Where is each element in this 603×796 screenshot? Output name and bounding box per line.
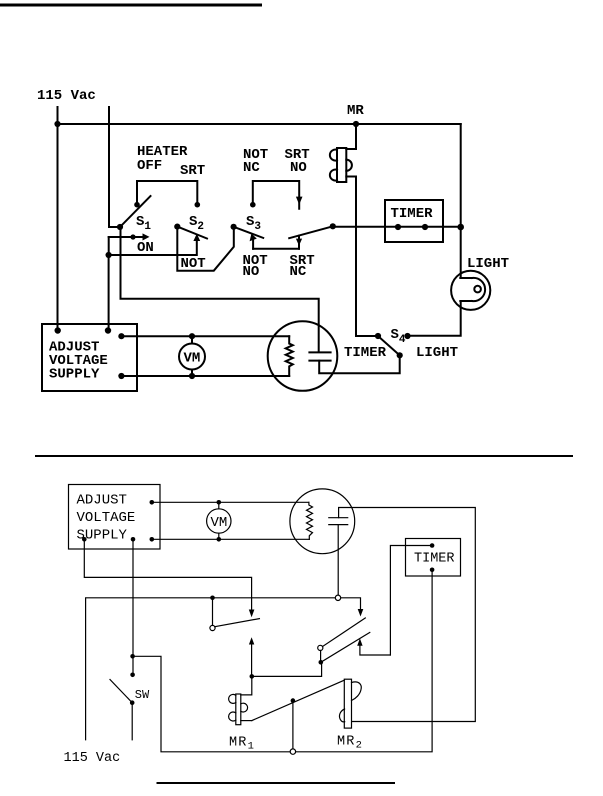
node box terminal bottom-right: [118, 373, 124, 379]
tube envelope lower: [290, 489, 355, 554]
wire box to tube bottom: [121, 375, 289, 377]
svg-text:SRT: SRT: [180, 163, 205, 179]
capacitor plates lower: [329, 518, 348, 525]
svg-text:TIMER: TIMER: [414, 552, 455, 567]
node timer terminal 1: [395, 224, 401, 230]
label ADJUST VOLTAGE SUPPLY lower: [77, 493, 136, 544]
wire on contact feed: [109, 237, 197, 255]
wire box to tube top lower: [152, 501, 309, 503]
node rail open junction: [335, 595, 340, 600]
wire box left lead to contact arm: [84, 539, 251, 613]
relay contact MR2: [318, 618, 370, 665]
node junction: [106, 252, 112, 258]
wire box to tube top: [121, 335, 289, 337]
svg-text:VM: VM: [184, 351, 201, 367]
contact ON: [109, 233, 150, 240]
wire top bus: [58, 123, 461, 125]
switch S1: [117, 196, 151, 230]
contact arrow SRT NO: [296, 197, 303, 205]
node rail junction: [457, 224, 464, 231]
wire lamp top: [460, 124, 462, 278]
wire heater-off bracket: [137, 181, 197, 204]
node terminal bottom-left: [82, 537, 87, 542]
relay blade SRT NC: [289, 223, 336, 238]
svg-text:115 Vac: 115 Vac: [64, 751, 121, 766]
switch SW: [110, 539, 135, 740]
wire junction to bus: [292, 701, 294, 749]
svg-text:NO: NO: [243, 264, 260, 280]
node srt contact S2: [195, 202, 201, 208]
wire left supply lead: [57, 107, 59, 331]
svg-text:MR: MR: [347, 103, 364, 119]
resistor inside tube: [286, 336, 293, 376]
svg-text:NO: NO: [290, 160, 307, 176]
node bus open junction: [290, 749, 295, 754]
switch S4: [375, 333, 411, 359]
box TIMER lower: [406, 539, 461, 577]
wire lower left lead to box: [108, 255, 110, 331]
wire not-no to srt-nc: [253, 248, 299, 250]
contact arrow down left: [249, 610, 255, 618]
node heater off contact: [134, 202, 140, 208]
switch S2: [174, 224, 207, 239]
box TIMER: [385, 200, 443, 242]
node timer terminal 2: [422, 224, 428, 230]
label SRT NO: [285, 147, 310, 176]
node timer top terminal: [430, 543, 435, 548]
contact arrow down right: [358, 609, 364, 617]
node terminal bottom-mid: [131, 537, 136, 542]
svg-text:NOT: NOT: [181, 256, 206, 272]
node diagonal junction: [291, 698, 296, 703]
node MR junction: [353, 121, 359, 127]
svg-text:VOLTAGE: VOLTAGE: [77, 510, 136, 526]
capacitor plates: [309, 352, 330, 360]
wire rail to timer: [333, 226, 461, 228]
svg-text:LIGHT: LIGHT: [416, 345, 458, 361]
resistor inside tube lower: [307, 502, 313, 539]
contact arrow NOT (at S2): [193, 234, 200, 241]
svg-text:NC: NC: [290, 264, 307, 280]
lamp LIGHT: [451, 271, 490, 310]
wire timer top lead: [390, 546, 432, 656]
contact arrow NOT NO: [250, 234, 257, 249]
wire MR1 bottom diagonal to MR2 top: [252, 680, 344, 720]
svg-text:ADJUST: ADJUST: [77, 493, 127, 509]
wire S1 to tube capacitor grid: [121, 227, 319, 352]
contact arrow up left: [249, 637, 254, 676]
svg-text:NC: NC: [243, 160, 260, 176]
svg-text:SUPPLY: SUPPLY: [49, 367, 100, 383]
node not nc contact: [250, 202, 256, 208]
label NOT NC: [243, 147, 268, 176]
label SRT NC: [290, 253, 315, 280]
node box terminal mid: [105, 327, 111, 333]
wire lamp bottom to S4: [408, 301, 461, 336]
wire link to MR2 contact: [252, 662, 322, 676]
svg-text:115 Vac: 115 Vac: [37, 88, 96, 104]
switch S3: [231, 224, 264, 238]
node supply junction: [54, 121, 60, 127]
node box terminal left: [55, 327, 61, 333]
meter VM: [179, 333, 205, 379]
node terminal bottom-right: [150, 537, 155, 542]
label ADJUST VOLTAGE SUPPLY: [49, 340, 108, 383]
wire 115vac lead and rail: [86, 598, 361, 740]
wire capacitor top to MR2 coil: [339, 508, 476, 722]
wire S4 to capacitor: [319, 355, 400, 373]
node timer bottom terminal: [430, 568, 435, 573]
relay coil MR1: [229, 694, 252, 725]
svg-text:OFF: OFF: [137, 158, 162, 174]
contact arrow SRT NC: [296, 236, 302, 249]
box ADJUST VOLTAGE SUPPLY lower: [69, 485, 161, 550]
wire box to tube bottom lower: [152, 538, 309, 540]
contact arrow up right: [357, 638, 390, 655]
wire S2 to S3 via NOT: [177, 227, 234, 271]
relay contact MR1: [210, 596, 260, 631]
wire not-nc bracket and srt-no arm: [253, 181, 299, 209]
tube envelope: [268, 321, 338, 391]
relay coil MR2: [339, 679, 361, 728]
node box terminal top-right: [118, 333, 124, 339]
node MR1 top junction: [250, 674, 255, 679]
svg-text:VM: VM: [211, 515, 228, 531]
svg-text:SW: SW: [135, 688, 150, 702]
svg-text:LIGHT: LIGHT: [467, 256, 509, 272]
wire to MR1 coil top: [241, 676, 252, 695]
meter VM lower: [207, 500, 231, 542]
node terminal top-right: [150, 500, 155, 505]
wire capacitor bottom to rail: [337, 525, 339, 598]
wire timer bottom to bus and SW: [133, 570, 433, 752]
label NOT NO: [243, 253, 268, 280]
label HEATER OFF: [137, 144, 188, 174]
box ADJUST VOLTAGE SUPPLY: [42, 324, 137, 391]
wire right supply lead to S1: [109, 107, 120, 227]
svg-text:ON: ON: [137, 240, 154, 256]
svg-text:TIMER: TIMER: [391, 206, 434, 222]
relay coil MR: [330, 124, 377, 336]
svg-text:TIMER: TIMER: [344, 345, 387, 361]
